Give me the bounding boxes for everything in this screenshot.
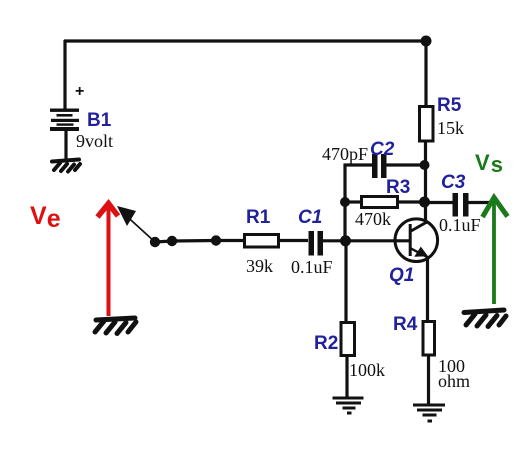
svg-text:470pF: 470pF <box>322 144 368 164</box>
svg-text:ohm: ohm <box>438 371 470 391</box>
wire left branch vertical (C2/R3 to base line) <box>343 164 346 242</box>
node R3 left junction <box>340 197 350 207</box>
battery B1 <box>50 109 79 132</box>
wire R5 bottom to collector <box>424 141 427 224</box>
svg-text:Q1: Q1 <box>389 265 414 286</box>
wire C2 left <box>344 163 372 166</box>
capacitor C3 <box>453 193 469 217</box>
svg-text:C1: C1 <box>298 207 322 228</box>
node contact dot 2 <box>167 236 177 246</box>
wire battery positive lead <box>63 40 66 109</box>
wire emitter down to R4 <box>426 256 429 321</box>
wire dots to R1 <box>155 241 244 243</box>
transistor Q1 <box>395 219 438 262</box>
svg-text:0.1uF: 0.1uF <box>439 215 481 235</box>
resistor R1 <box>245 235 279 248</box>
wire C3 right <box>468 201 491 204</box>
svg-text:Ve: Ve <box>30 202 62 233</box>
node contact dot 1 <box>150 237 160 247</box>
resistor R3 <box>362 197 398 208</box>
wire R2 top lead <box>344 241 347 322</box>
capacitor C2 <box>372 154 387 178</box>
node R3 right junction <box>419 197 430 208</box>
svg-text:15k: 15k <box>437 118 464 138</box>
wire R3 left <box>345 200 360 203</box>
svg-text:R5: R5 <box>437 95 462 116</box>
switch wiper arrowhead <box>117 206 136 226</box>
svg-text:0.1uF: 0.1uF <box>291 257 333 277</box>
switch wiper arm <box>121 211 155 242</box>
Ve input arrow (red) <box>98 204 119 317</box>
svg-text:9volt: 9volt <box>76 131 113 151</box>
wire C3 left <box>424 201 453 204</box>
wire top rail <box>64 39 426 42</box>
svg-text:470k: 470k <box>355 209 391 229</box>
svg-text:B1: B1 <box>87 110 112 131</box>
node base/C1/R2 junction <box>340 235 351 246</box>
resistor R5 <box>420 107 434 142</box>
wire R1 to C1 <box>280 239 308 242</box>
wire right rail to R5 <box>424 41 427 106</box>
wire battery negative lead <box>64 131 67 160</box>
resistor R4 <box>423 322 435 356</box>
wire base line <box>345 239 409 242</box>
svg-text:R3: R3 <box>386 177 410 198</box>
svg-text:100k: 100k <box>349 360 385 380</box>
ground Ve (hatched) <box>95 318 136 334</box>
node top-right junction <box>421 36 432 47</box>
svg-text:C3: C3 <box>441 172 466 193</box>
svg-text:Vs: Vs <box>475 150 504 177</box>
wire C2 right <box>386 163 424 166</box>
resistor R2 <box>341 323 355 356</box>
svg-text:C2: C2 <box>370 139 395 160</box>
node contact dot 3 <box>211 235 221 245</box>
Vs output arrow (green) <box>483 198 508 305</box>
wire R4 to ground <box>427 355 430 405</box>
ground Vs (hatched) <box>464 310 506 327</box>
svg-text:R1: R1 <box>246 207 271 228</box>
ground R4 (bar style) <box>413 404 445 423</box>
ground battery (hatched) <box>52 160 80 172</box>
svg-text:R4: R4 <box>393 314 418 335</box>
svg-text:R2: R2 <box>314 333 338 354</box>
svg-text:39k: 39k <box>246 256 273 276</box>
ground R2 (bar style) <box>333 397 364 415</box>
wire C1 right <box>323 239 345 242</box>
wire R2 to ground <box>345 355 348 397</box>
svg-text:+: + <box>75 83 84 100</box>
node C2 right junction <box>420 160 430 170</box>
capacitor C1 <box>309 231 324 256</box>
wire R3 right <box>399 200 424 203</box>
